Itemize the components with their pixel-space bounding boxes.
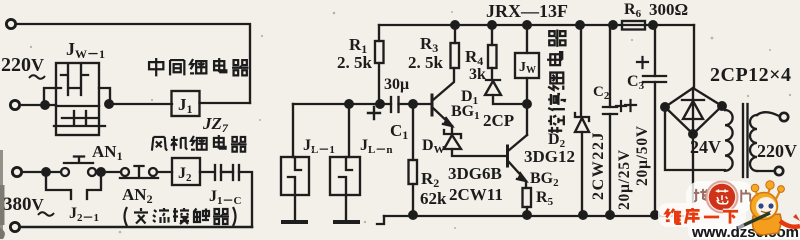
relay coil J1 box — [172, 91, 200, 116]
node C2/ground rail junction — [606, 211, 614, 219]
wire — [96, 171, 121, 173]
svg-text:2CP: 2CP — [483, 111, 514, 130]
node — [523, 100, 531, 108]
wire — [20, 104, 56, 106]
terminal 220V bottom — [10, 100, 19, 109]
ground below JL-n — [335, 220, 358, 224]
wire — [200, 102, 251, 104]
resistor R4 — [488, 21, 497, 80]
watermark halo — [658, 181, 800, 239]
svg-text:220V: 220V — [757, 141, 797, 161]
relay contact JL-n — [330, 104, 360, 195]
label (交流接触器) AC contactor — [125, 207, 236, 226]
capacitor C1 — [368, 97, 399, 119]
node — [376, 100, 384, 108]
wire top rail left section — [16, 24, 250, 103]
node D2/ground rail junction — [579, 211, 587, 219]
bottom rail — [384, 215, 694, 217]
bridge rectifier 2CP12x4 — [661, 25, 726, 215]
svg-text:2CW11: 2CW11 — [449, 185, 503, 204]
node — [41, 101, 49, 109]
zener diode D2 — [575, 21, 589, 215]
svg-text:3DG12: 3DG12 — [524, 147, 575, 166]
pushbutton AN2 — [120, 166, 158, 178]
node — [409, 100, 417, 108]
relay contact JL-1 — [281, 104, 309, 195]
label 控停继电器 (stop-control relay, vertical) — [547, 30, 565, 133]
svg-text:3DG6B: 3DG6B — [448, 164, 502, 183]
watermark 维库一下 — [666, 208, 738, 224]
pushbutton AN1 — [61, 157, 96, 177]
zener diode DW — [444, 126, 507, 156]
svg-text:2CW22J: 2CW22J — [590, 131, 607, 200]
transistor BG1 — [432, 68, 454, 126]
terminal 380V bottom — [10, 222, 19, 231]
diode D1 — [485, 80, 527, 104]
wire rail end hook — [377, 216, 384, 224]
contact J2-1 — [46, 172, 101, 199]
capacitor C3 — [625, 25, 666, 215]
node R2/ground rail junction — [409, 211, 417, 219]
svg-text:20μ/50V: 20μ/50V — [634, 125, 651, 186]
svg-text:380V: 380V — [3, 194, 45, 215]
relay coil JW box — [515, 21, 539, 104]
resistor R2 — [409, 104, 418, 215]
node — [97, 168, 105, 176]
wire — [22, 171, 61, 173]
wire right side down — [239, 172, 252, 227]
top rail electronics — [379, 24, 694, 26]
svg-text:2. 5k: 2. 5k — [337, 53, 373, 72]
resistor R5 — [523, 188, 532, 215]
node R5/ground rail junction — [523, 211, 531, 219]
wire — [200, 171, 214, 173]
capacitor C2 — [603, 25, 626, 215]
label 风机继电器 (fan relay) — [152, 135, 247, 152]
svg-text:300Ω: 300Ω — [649, 0, 688, 19]
relay coil J2 box — [172, 158, 200, 185]
svg-text:62k: 62k — [420, 189, 447, 208]
svg-text:2CP12×4: 2CP12×4 — [710, 64, 792, 86]
node — [345, 100, 353, 108]
wire — [157, 171, 172, 173]
wire JL-1 to ground — [294, 195, 296, 221]
resistor R1 — [375, 25, 384, 104]
svg-text:220V: 220V — [1, 54, 44, 76]
resistor R6 — [609, 21, 657, 30]
contact J1-C — [215, 165, 239, 180]
terminal 220V top — [6, 19, 15, 28]
watermark 找芯片 logo — [694, 182, 750, 213]
wire mid node line — [293, 103, 391, 105]
wire JL-n to ground — [345, 195, 347, 221]
svg-text:3k: 3k — [469, 66, 486, 83]
svg-text:2. 5k: 2. 5k — [408, 53, 444, 72]
ground below JL-1 — [283, 220, 306, 224]
wire — [399, 103, 432, 105]
svg-text:JRX—13F: JRX—13F — [486, 1, 568, 21]
transformer — [722, 104, 788, 177]
relay contact JW-1 box — [44, 63, 110, 135]
svg-text:24V: 24V — [690, 137, 721, 157]
terminal 380V top — [12, 167, 21, 176]
wire bottom — [20, 226, 252, 229]
watermark mascot — [738, 181, 800, 235]
node C3/ground rail junction — [651, 211, 659, 219]
node — [42, 168, 50, 176]
wire to J1 — [109, 103, 172, 105]
node — [105, 100, 113, 108]
svg-text:30μ: 30μ — [384, 76, 409, 93]
scan corner marks — [0, 150, 3, 239]
svg-text:20μ/25V: 20μ/25V — [616, 149, 633, 210]
transistor BG2 — [508, 104, 528, 188]
label 中间继电器 (intermediate relay) — [149, 58, 248, 76]
resistor R3 — [451, 21, 460, 68]
